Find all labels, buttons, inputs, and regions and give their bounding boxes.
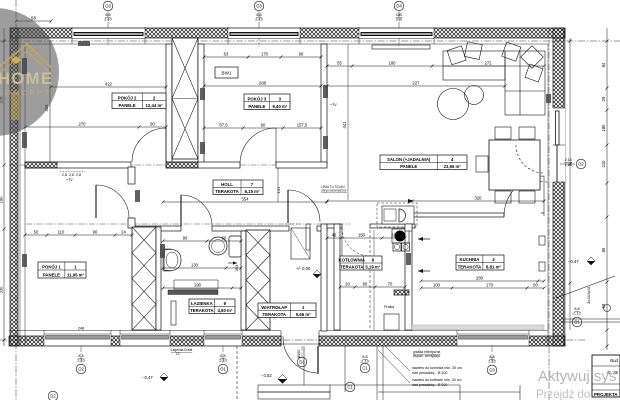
svg-text:5,19 m²: 5,19 m² <box>365 264 380 269</box>
toilet <box>209 237 227 255</box>
svg-text:TERAKOTA: TERAKOTA <box>190 308 214 313</box>
window opening bottom wall 44-111 <box>44 335 111 347</box>
svg-text:210: 210 <box>396 18 402 22</box>
svg-text:29: 29 <box>601 96 606 101</box>
door bathroom arc <box>180 195 182 226</box>
logo house roof <box>0 44 52 120</box>
svg-text:353: 353 <box>234 264 239 271</box>
svg-text:90: 90 <box>183 236 188 241</box>
dim salon top <box>327 65 544 67</box>
sofa <box>443 42 545 115</box>
window opening top wall 228-300 <box>228 28 300 39</box>
left wall hatched band <box>10 28 18 346</box>
svg-text:2,10: 2,10 <box>565 163 572 167</box>
svg-text:nawiew do kotłowni min. 30 cm: nawiew do kotłowni min. 30 cm <box>412 378 462 382</box>
window opening bottom wall 120-170 <box>120 335 170 347</box>
svg-text:+TV: +TV <box>66 178 73 182</box>
pipes down from kotlownia <box>376 346 378 400</box>
svg-text:WIATROŁAP: WIATROŁAP <box>261 305 287 310</box>
svg-text:4,50 m²: 4,50 m² <box>217 308 232 313</box>
axis circle D1 bottom entrance <box>297 357 307 367</box>
axis circle O1 bottom <box>218 364 228 374</box>
svg-text:Ø160: Ø160 <box>297 350 301 359</box>
svg-text:50: 50 <box>34 230 39 235</box>
dim bathroom top <box>163 240 241 242</box>
svg-text:KUCHNIA: KUCHNIA <box>460 257 480 262</box>
wall pokoj1 right (V4) <box>128 167 135 184</box>
wall pokoj3 left <box>198 44 204 167</box>
svg-text:330: 330 <box>0 286 4 294</box>
label lazienka <box>189 299 235 314</box>
washbasin <box>163 249 171 271</box>
svg-text:O3: O3 <box>489 368 495 373</box>
horizontal axis line through top wall <box>0 40 620 42</box>
label BW1 <box>215 67 238 78</box>
window opening top wall 72-145 <box>72 28 145 39</box>
svg-text:280: 280 <box>476 276 484 281</box>
svg-text:8,8: 8,8 <box>574 307 579 311</box>
wall holl south (H2) <box>135 226 181 231</box>
svg-text:D1: D1 <box>299 360 305 365</box>
kitchen stove black disk <box>395 231 406 242</box>
wiatrolap wardrobe <box>291 228 310 259</box>
label wiatrolap <box>258 303 316 318</box>
kitchen left wall <box>405 216 412 330</box>
svg-text:TERAKOTA: TERAKOTA <box>340 264 364 269</box>
horizontal axis H1 <box>9 164 327 166</box>
svg-text:8,40 m²: 8,40 m² <box>272 104 287 109</box>
svg-text:55: 55 <box>337 61 342 66</box>
svg-text:D2: D2 <box>578 162 584 167</box>
svg-text:12: 12 <box>176 352 180 356</box>
svg-text:422: 422 <box>105 82 113 87</box>
svg-text:20: 20 <box>345 282 350 287</box>
svg-text:8,81 m²: 8,81 m² <box>486 264 501 269</box>
kitchen sink double <box>393 243 401 251</box>
axis circle D2 right salon <box>576 159 586 169</box>
svg-text:O3: O3 <box>105 4 111 9</box>
svg-text:100: 100 <box>433 283 441 288</box>
svg-text:Pralka: Pralka <box>384 305 394 309</box>
level markers <box>142 257 595 384</box>
plant circles <box>438 89 469 120</box>
svg-text:441: 441 <box>342 121 347 129</box>
bath counter dark bar <box>168 290 218 295</box>
svg-text:130: 130 <box>191 263 199 268</box>
dim bathroom low <box>163 287 241 289</box>
kotlownia inner wall hatch <box>394 290 409 295</box>
axis circle O3 bottom kitchen <box>487 365 497 375</box>
chimney shaft 3 <box>246 230 270 330</box>
svg-text:248: 248 <box>78 327 84 331</box>
washing machine pralka <box>384 314 399 330</box>
small dim top-left <box>16 20 51 22</box>
wiatrolap east wall <box>321 224 327 331</box>
svg-text:5,66 m²: 5,66 m² <box>296 312 311 317</box>
svg-text:6,15 m²: 6,15 m² <box>245 189 260 194</box>
svg-text:O1: O1 <box>220 367 226 372</box>
dim salon second <box>327 85 505 87</box>
svg-text:O2: O2 <box>78 367 84 372</box>
axis circle O4 top right <box>394 1 404 11</box>
kitchen sill gray <box>412 325 544 330</box>
vertical axis right wall <box>548 28 550 400</box>
svg-text:Przejdź do: Przejdź do <box>536 389 590 400</box>
dim holl vertical 131 <box>277 168 279 202</box>
right dimension chain <box>606 28 608 350</box>
svg-text:- 0,52: - 0,52 <box>261 373 272 378</box>
entrance door arc outside <box>283 336 317 373</box>
kitchen top wall <box>412 213 504 217</box>
svg-text:87,5: 87,5 <box>219 123 228 128</box>
leader lines to nawiew <box>385 346 410 371</box>
svg-text:227: 227 <box>413 81 421 86</box>
terrace door arc (dashed) <box>511 146 548 182</box>
svg-text:HOME: HOME <box>0 70 54 88</box>
svg-text:obrys wewnętrzny: obrys wewnętrzny <box>321 189 347 193</box>
axis circle D1 right <box>572 317 582 327</box>
svg-text:554: 554 <box>242 197 250 202</box>
corridor wall stub <box>306 224 310 250</box>
top wall hatched band <box>11 28 565 38</box>
dim kotlownia <box>327 237 405 239</box>
svg-text:Bud: Bud <box>610 358 618 363</box>
svg-text:63: 63 <box>224 52 229 57</box>
svg-text:60: 60 <box>222 236 227 241</box>
svg-text:11,95 m²: 11,95 m² <box>67 272 85 277</box>
svg-text:70: 70 <box>388 282 393 287</box>
svg-text:90: 90 <box>150 122 155 127</box>
svg-text:PANELE: PANELE <box>248 104 265 109</box>
dim salon bottom <box>327 200 544 202</box>
label kuchnia <box>456 255 504 270</box>
svg-text:Aktywuj sys: Aktywuj sys <box>538 368 616 385</box>
kotlownia flue line <box>369 230 371 330</box>
entrance door opening bottom wall <box>280 331 282 346</box>
svg-text:+/- 0,00: +/- 0,00 <box>296 266 311 271</box>
label pokoj2 <box>112 93 166 109</box>
bottom wall hatched band <box>9 336 281 346</box>
svg-text:320: 320 <box>475 196 483 201</box>
dim pokoj2 width <box>51 86 166 88</box>
svg-text:D2: D2 <box>50 394 56 399</box>
vertical axis window O3b <box>258 10 260 46</box>
svg-text:POKÓJ 2: POKÓJ 2 <box>118 95 137 100</box>
svg-text:86: 86 <box>601 247 606 252</box>
svg-text:110: 110 <box>58 230 65 235</box>
svg-text:90: 90 <box>299 52 304 57</box>
vertical axis window O4 <box>398 10 400 46</box>
svg-text:24: 24 <box>391 233 396 238</box>
svg-text:2,10: 2,10 <box>104 18 111 22</box>
axis circle O2 bottom left <box>76 364 86 374</box>
svg-text:C1: C1 <box>362 366 368 371</box>
fireplace (kominek) <box>382 206 414 224</box>
dim kitchen detail <box>421 287 544 289</box>
table dashed door overlay <box>516 145 544 173</box>
chimney shaft 1 <box>172 38 198 159</box>
arrow bathroom <box>228 262 237 264</box>
svg-text:180: 180 <box>389 61 397 66</box>
wall salon left / pokoj3 right <box>321 44 327 164</box>
svg-text:Legenda Drzwi: Legenda Drzwi <box>171 348 193 352</box>
axis circle D2 bottom left edge <box>48 391 58 400</box>
dim pokoj3 lower <box>204 127 321 129</box>
radiator bathroom <box>171 301 176 325</box>
svg-text:2,10: 2,10 <box>573 312 580 316</box>
svg-text:PROJEKTA: PROJEKTA <box>594 392 618 397</box>
vertical axis line left wall <box>15 0 17 400</box>
axis circle B1 bottom <box>345 382 355 392</box>
door wiatrolap arc <box>287 190 289 223</box>
dim bathroom mid <box>163 267 241 269</box>
dim pokoj1 <box>25 234 132 236</box>
vertical axis window O3a <box>107 10 109 46</box>
svg-text:PANELE: PANELE <box>43 272 60 277</box>
svg-text:24: 24 <box>121 230 126 235</box>
door pokoj2 arc <box>132 128 166 162</box>
svg-text:O3: O3 <box>256 4 262 9</box>
door pokoj1 arc <box>95 185 97 218</box>
kotlownia left wall <box>334 224 340 330</box>
svg-text:- 0,47: - 0,47 <box>142 375 153 380</box>
window opening top wall 359-434 <box>359 28 434 39</box>
svg-text:2,10: 2,10 <box>361 360 368 364</box>
wall holl north junction hatch <box>25 162 57 168</box>
label kotlownia <box>339 256 382 270</box>
svg-text:POKÓJ 3: POKÓJ 3 <box>248 96 267 101</box>
svg-text:272: 272 <box>485 61 493 66</box>
svg-text:90: 90 <box>261 123 266 128</box>
svg-text:46: 46 <box>332 233 337 238</box>
right secondary vline <box>569 38 571 330</box>
svg-text:8,8: 8,8 <box>105 13 110 17</box>
svg-text:190: 190 <box>194 283 202 288</box>
dim pokoj2 lower <box>25 126 166 128</box>
label holl <box>213 180 263 195</box>
svg-text:2,10: 2,10 <box>255 18 262 22</box>
axis circle O3 top left <box>103 1 113 11</box>
svg-text:190: 190 <box>0 196 4 204</box>
svg-text:SALON (+JADALNIA): SALON (+JADALNIA) <box>387 157 431 162</box>
right wall hatched band <box>553 28 564 346</box>
dim pokoj3 top <box>204 56 321 58</box>
svg-text:2,8 2,8 2,8: 2,8 2,8 2,8 <box>62 173 81 177</box>
svg-text:8,8: 8,8 <box>256 13 261 17</box>
svg-text:O4: O4 <box>396 4 402 9</box>
svg-text:TERAKOTA: TERAKOTA <box>458 264 482 269</box>
svg-text:HOLL: HOLL <box>221 182 233 187</box>
label pokoj3 <box>244 94 290 110</box>
svg-text:50: 50 <box>533 283 538 288</box>
bathroom right wall <box>241 231 246 330</box>
dim pokoj2 vertical <box>49 40 51 162</box>
radiator under salon window <box>372 45 430 49</box>
svg-text:CONCEPT: CONCEPT <box>0 88 52 97</box>
svg-text:180: 180 <box>396 13 402 17</box>
dim pokoj3 width <box>204 85 321 87</box>
label pokoj1 <box>38 262 86 278</box>
corridor south wall (H3) <box>327 224 342 228</box>
svg-text:150: 150 <box>358 233 366 238</box>
project table box <box>592 355 620 397</box>
terrace diagonal right <box>556 276 615 298</box>
svg-text:131: 131 <box>276 186 281 193</box>
svg-text:270: 270 <box>79 122 87 127</box>
svg-text:2,10: 2,10 <box>565 158 572 162</box>
svg-text:POKÓJ 1: POKÓJ 1 <box>42 265 61 270</box>
svg-text:23,66 m²: 23,66 m² <box>444 164 462 169</box>
door kotlownia arc (dashed) <box>342 228 370 256</box>
svg-text:C1: C1 <box>347 385 353 390</box>
svg-text:170: 170 <box>261 52 269 57</box>
svg-text:KOTŁOWNIA: KOTŁOWNIA <box>339 258 366 263</box>
bathroom left wall <box>156 227 161 330</box>
horizontal axis line through bottom wall <box>0 339 585 341</box>
svg-text:+TV: +TV <box>330 103 337 107</box>
steps below entrance <box>237 346 520 400</box>
chimney shaft 2 <box>132 227 156 330</box>
door kitchen arc <box>504 176 544 216</box>
wall holl north (H1) <box>25 162 131 168</box>
axis circle O3 top mid <box>254 1 264 11</box>
svg-text:84: 84 <box>601 62 606 67</box>
svg-text:210: 210 <box>601 160 606 168</box>
svg-text:ŁAZIENKA: ŁAZIENKA <box>191 301 213 306</box>
window opening bottom wall 457-529 <box>457 335 529 347</box>
svg-text:PANELE: PANELE <box>119 103 136 108</box>
svg-text:170: 170 <box>486 283 494 288</box>
axis circle C1 bottom <box>360 363 370 373</box>
svg-text:12,44 m²: 12,44 m² <box>146 103 164 108</box>
window opening bottom wall 204-242 <box>204 335 242 347</box>
svg-text:3x16/3x31: 3x16/3x31 <box>587 286 591 304</box>
small boxes right wall <box>539 236 545 245</box>
svg-text:8,8: 8,8 <box>362 355 367 359</box>
svg-text:wspom. wentylacja: wspom. wentylacja <box>413 354 440 358</box>
arrows kitchen wall <box>418 238 430 240</box>
dim holl <box>163 201 327 203</box>
svg-text:80: 80 <box>363 282 368 287</box>
svg-text:180: 180 <box>601 124 606 132</box>
label salon <box>380 155 467 170</box>
dim kitchen width <box>421 280 544 282</box>
left dimension chain <box>3 28 5 346</box>
horizontal axis H2 <box>26 223 300 225</box>
terrace window+door opening right wall <box>553 108 566 182</box>
svg-text:nawiew do kominka min. 30 cm: nawiew do kominka min. 30 cm <box>412 366 462 370</box>
dining table <box>489 140 540 190</box>
svg-text:157,5: 157,5 <box>297 123 308 128</box>
svg-text:PANELE: PANELE <box>400 164 417 169</box>
logo watermark circle <box>0 8 59 136</box>
svg-text:288: 288 <box>259 81 267 86</box>
door pokoj3 arc <box>240 128 276 164</box>
svg-text:90: 90 <box>93 230 98 235</box>
dim salon vertical <box>347 44 349 200</box>
svg-text:BW1: BW1 <box>222 71 232 76</box>
svg-text:TERAKOTA: TERAKOTA <box>262 312 286 317</box>
svg-text:nad posadzką - Ø 200: nad posadzką - Ø 200 <box>412 371 447 375</box>
wall tags <box>22 58 27 74</box>
svg-text:- 0,47: - 0,47 <box>568 259 579 264</box>
wall pokoj2 right <box>166 44 172 162</box>
svg-text:TERAKOTA: TERAKOTA <box>215 189 239 194</box>
